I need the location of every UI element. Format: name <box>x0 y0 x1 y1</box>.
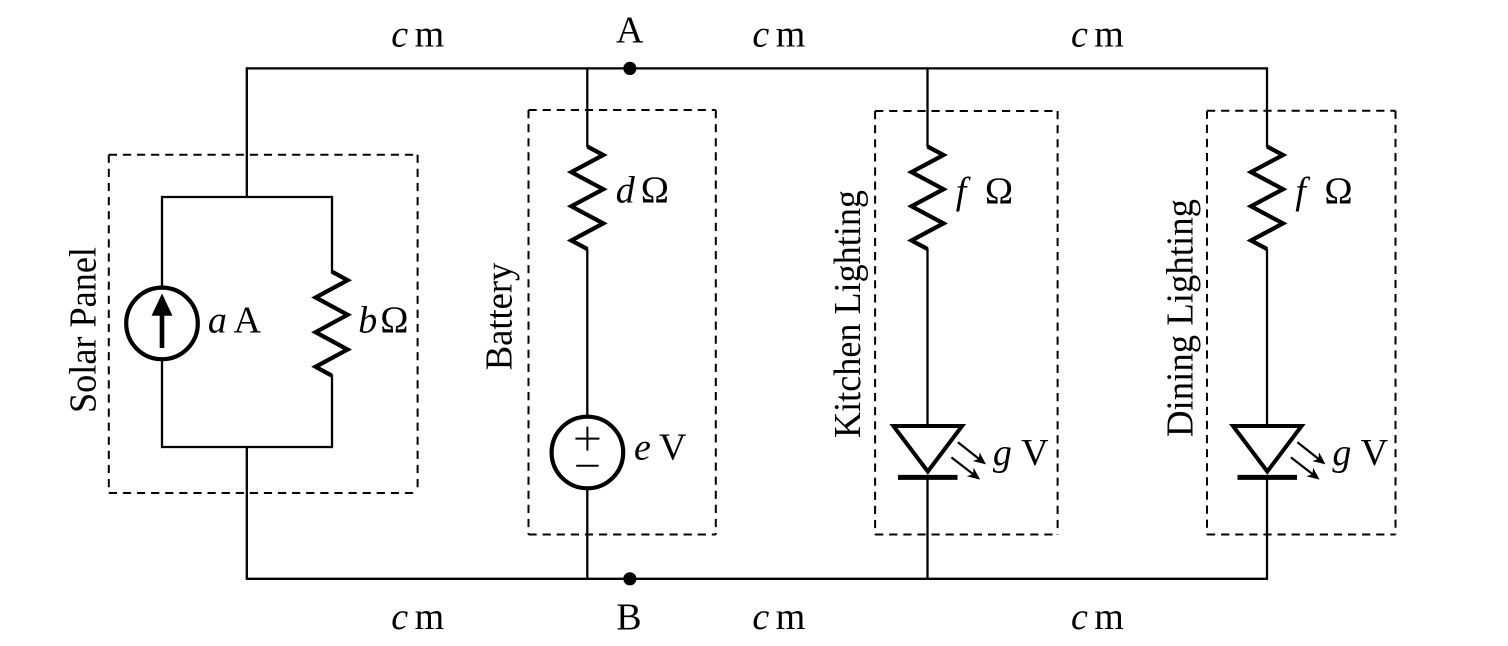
wire: solar branch top <box>246 67 248 198</box>
wire: battery branch middle <box>586 249 588 453</box>
svg-text:c: c <box>391 596 408 638</box>
LED D2 emission arrows <box>1291 442 1329 484</box>
svg-text:Solar Panel: Solar Panel <box>63 247 105 413</box>
svg-text:c: c <box>1071 14 1088 56</box>
resistor (kitchen, f ohm) <box>912 147 944 250</box>
svg-text:Ω: Ω <box>380 299 408 341</box>
svg-text:b: b <box>358 299 377 341</box>
resistor (battery, d ohm) <box>571 147 603 250</box>
svg-text:A: A <box>234 299 262 341</box>
svg-text:a: a <box>208 299 227 341</box>
svg-text:c: c <box>1071 596 1088 638</box>
top bus wire (node A rail) <box>247 67 1267 69</box>
wire: solar inner loop right (top) <box>331 196 333 273</box>
svg-text:Battery: Battery <box>479 263 521 371</box>
node B junction dot <box>623 572 636 585</box>
wire: kitchen branch middle <box>926 249 928 427</box>
svg-text:A: A <box>616 10 644 52</box>
svg-text:d: d <box>616 170 636 212</box>
wire: solar inner loop top <box>162 196 332 198</box>
svg-text:Dining Lighting: Dining Lighting <box>1159 199 1201 437</box>
wire: dining branch middle <box>1266 249 1268 427</box>
node A junction dot <box>623 62 636 75</box>
svg-text:m: m <box>415 596 445 638</box>
wire: battery branch top <box>586 67 588 147</box>
dashed box: Battery subsystem <box>529 110 716 535</box>
LED D2 (dining) <box>1233 426 1302 477</box>
svg-text:V: V <box>1361 432 1389 474</box>
svg-text:B: B <box>616 597 641 639</box>
wire: dining branch top <box>1266 67 1268 147</box>
svg-text:V: V <box>659 427 687 469</box>
svg-text:g: g <box>993 432 1012 474</box>
svg-text:c: c <box>752 596 769 638</box>
wire: kitchen branch top <box>926 67 928 147</box>
current source I1 (solar, a A) <box>126 288 198 360</box>
svg-text:m: m <box>776 596 806 638</box>
LED D1 (kitchen) <box>893 426 962 477</box>
voltage source V1 (battery, e V) <box>552 417 624 489</box>
resistor (dining, f ohm) <box>1251 147 1283 250</box>
wire: solar inner loop bottom <box>162 446 332 448</box>
svg-text:Ω: Ω <box>985 171 1013 213</box>
svg-text:m: m <box>1094 596 1124 638</box>
wire: battery branch bottom <box>586 452 588 580</box>
svg-text:Kitchen Lighting: Kitchen Lighting <box>827 190 869 438</box>
wire: dining branch bottom <box>1266 477 1268 580</box>
svg-text:m: m <box>776 14 806 56</box>
bottom bus wire (node B rail) <box>247 578 1267 580</box>
svg-text:Ω: Ω <box>1324 171 1352 213</box>
resistor (solar, b ohm) <box>316 272 348 376</box>
dashed box: Solar Panel subsystem <box>109 155 418 493</box>
svg-text:m: m <box>415 14 445 56</box>
svg-text:c: c <box>752 14 769 56</box>
svg-text:V: V <box>1021 432 1049 474</box>
svg-text:c: c <box>391 14 408 56</box>
wire: solar inner loop right (bottom) <box>331 375 333 449</box>
svg-text:g: g <box>1332 432 1351 474</box>
dashed box: Dining Lighting subsystem <box>1207 111 1396 535</box>
LED D1 emission arrows <box>951 442 989 484</box>
svg-text:Ω: Ω <box>641 170 669 212</box>
wire: solar branch bottom <box>246 446 248 580</box>
svg-text:e: e <box>634 427 651 469</box>
wire: kitchen branch bottom <box>926 477 928 580</box>
wire: solar inner loop left <box>161 196 163 448</box>
dashed box: Kitchen Lighting subsystem <box>875 111 1058 535</box>
svg-text:m: m <box>1094 14 1124 56</box>
